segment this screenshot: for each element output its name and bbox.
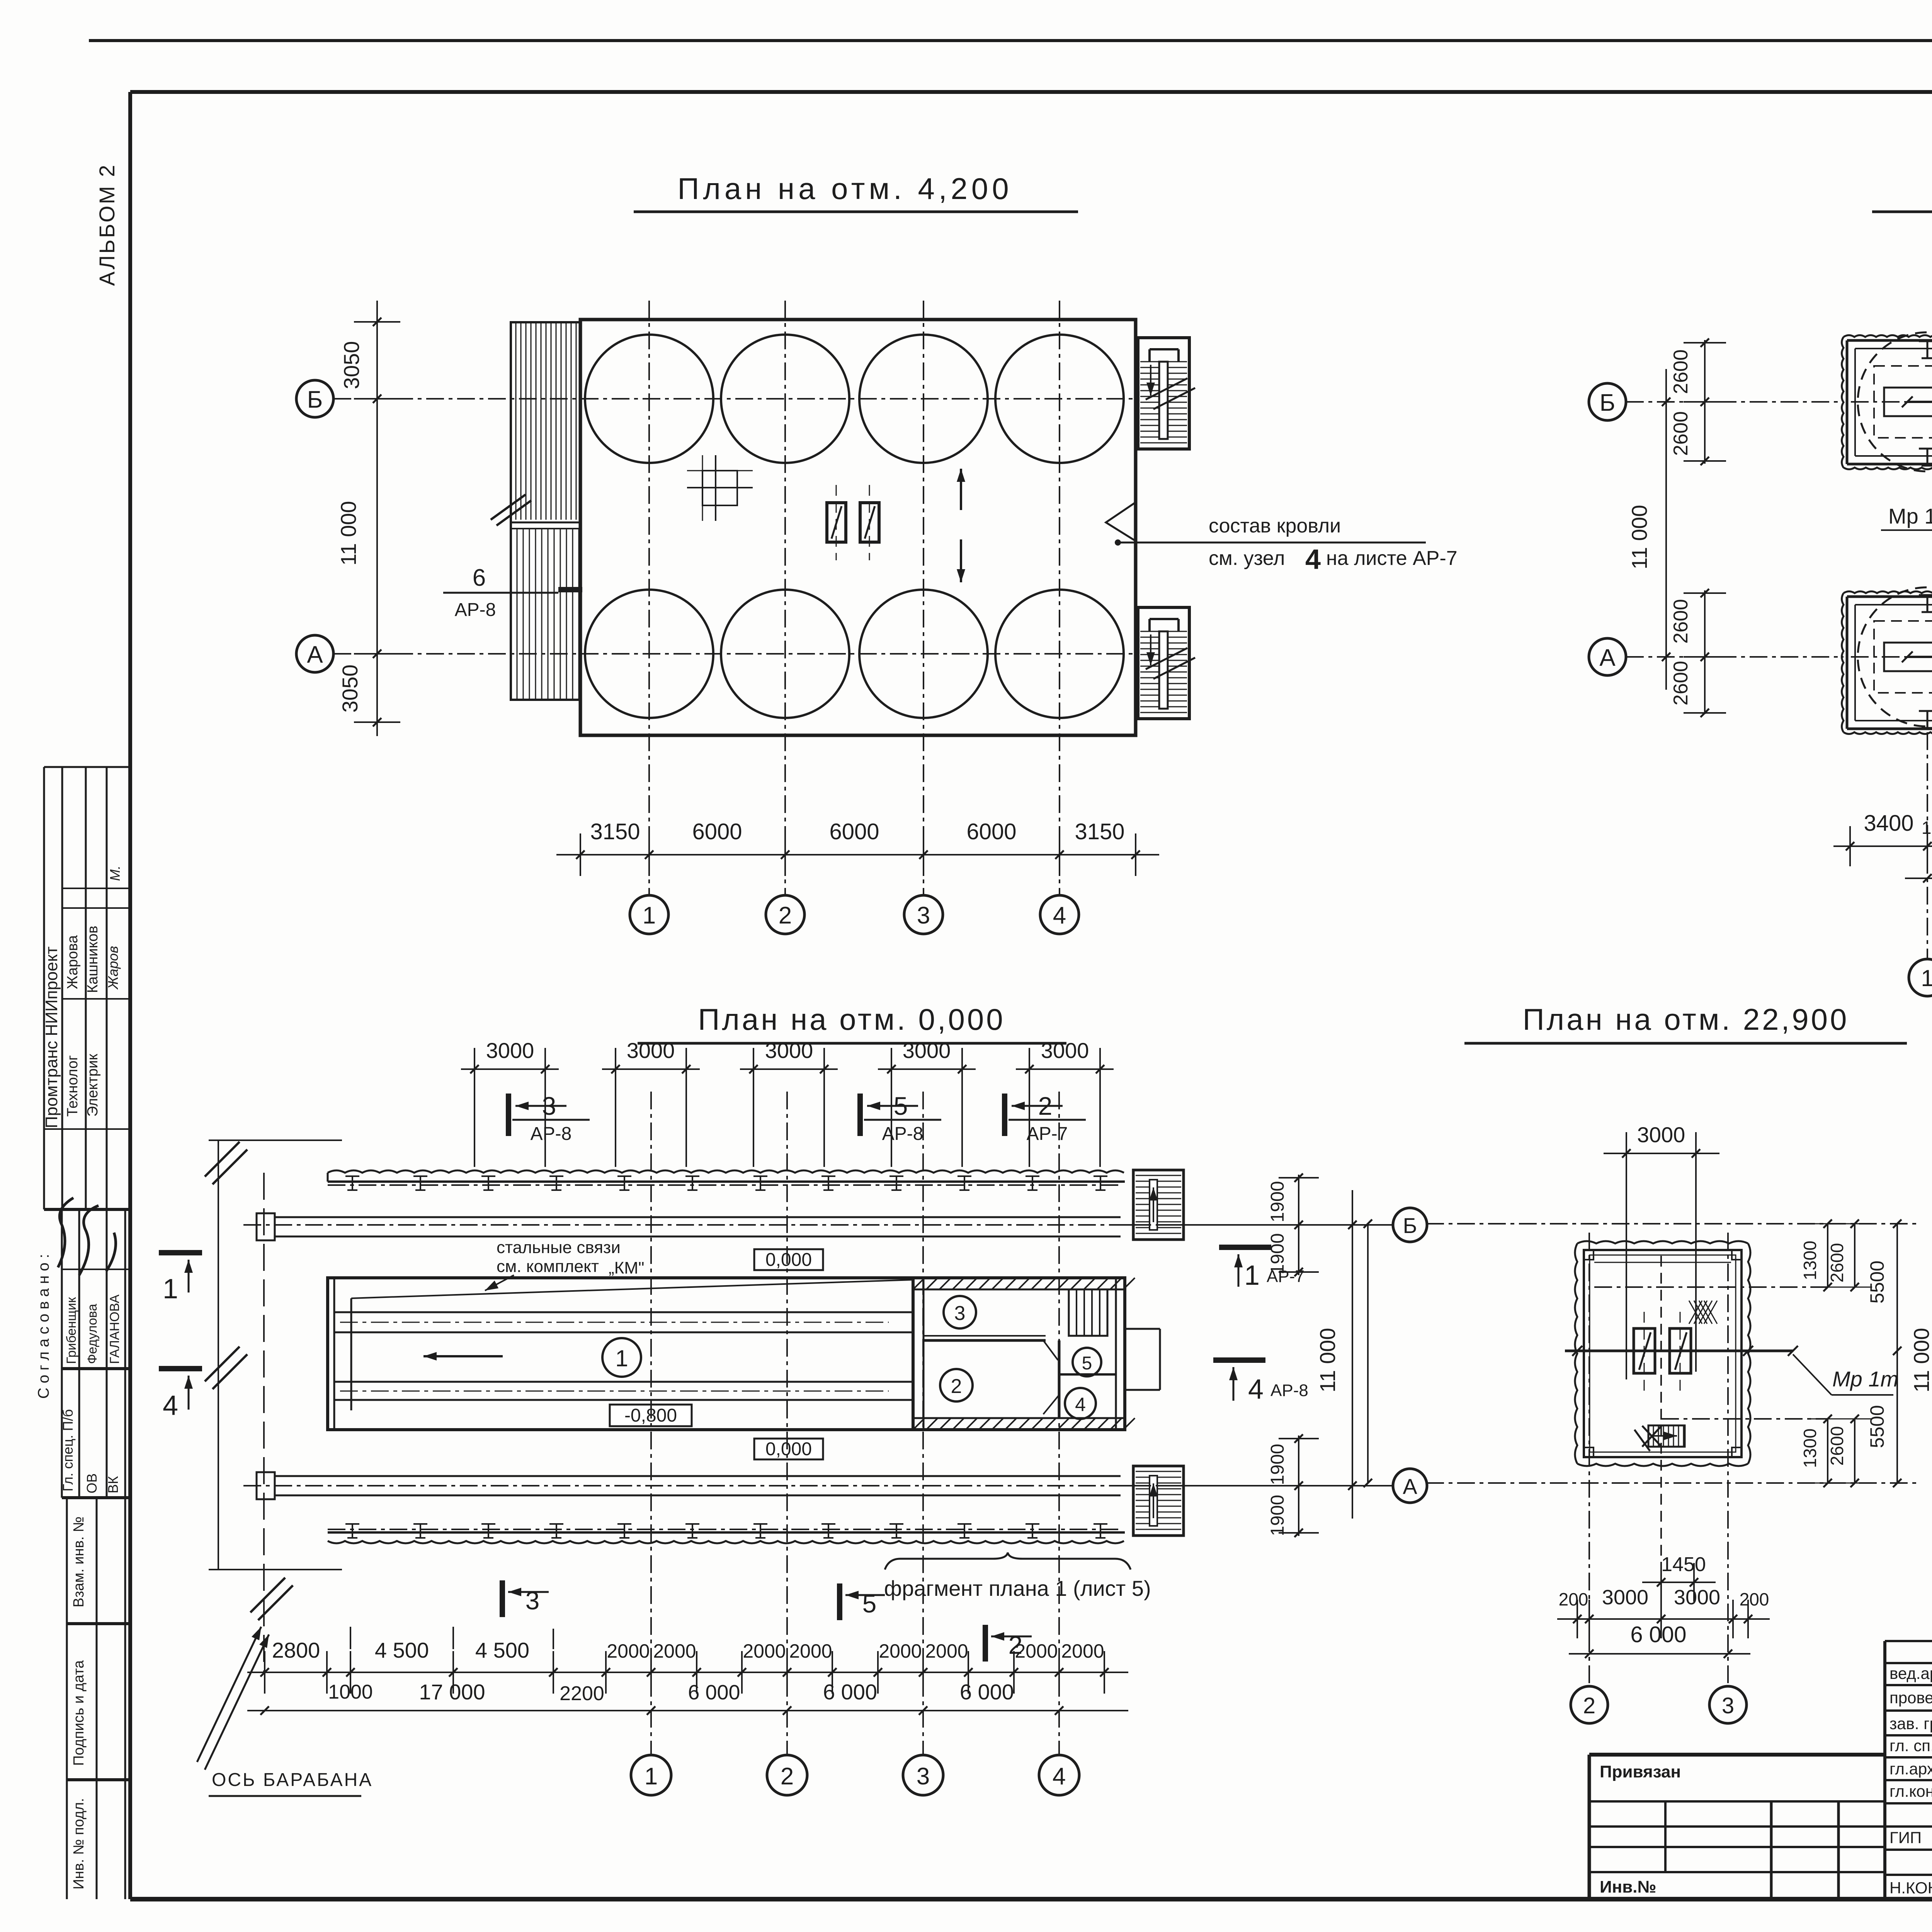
svg-text:3: 3 <box>954 1302 966 1325</box>
svg-text:200: 200 <box>1740 1589 1769 1609</box>
svg-text:5500: 5500 <box>1866 1405 1888 1448</box>
svg-text:200: 200 <box>1559 1589 1588 1609</box>
svg-text:3: 3 <box>917 902 930 929</box>
svg-text:3000: 3000 <box>1602 1586 1648 1609</box>
svg-text:Инв.№: Инв.№ <box>1600 1878 1656 1896</box>
svg-text:1300: 1300 <box>1800 1241 1820 1280</box>
svg-text:М.: М. <box>107 866 123 881</box>
svg-text:АР-8: АР-8 <box>455 600 496 620</box>
svg-text:План на отм. 15,000: План на отм. 15,000 <box>1930 172 1932 206</box>
svg-text:5: 5 <box>894 1092 908 1120</box>
svg-text:3000: 3000 <box>765 1038 813 1063</box>
svg-text:Б: Б <box>1403 1213 1417 1238</box>
svg-text:1900: 1900 <box>1267 1495 1288 1536</box>
svg-text:Б: Б <box>307 386 323 413</box>
svg-text:2: 2 <box>1009 1631 1023 1659</box>
svg-text:1900: 1900 <box>1267 1444 1288 1485</box>
svg-text:0,000: 0,000 <box>765 1439 812 1459</box>
svg-text:3000: 3000 <box>627 1038 675 1063</box>
svg-text:6 000: 6 000 <box>1630 1622 1686 1647</box>
svg-text:гл. сп. кон.: гл. сп. кон. <box>1889 1736 1932 1755</box>
svg-text:3: 3 <box>917 1763 930 1790</box>
svg-text:Б: Б <box>1600 389 1616 416</box>
svg-text:3: 3 <box>542 1092 556 1120</box>
svg-text:2: 2 <box>951 1375 962 1398</box>
svg-text:Гл. спец. П/б: Гл. спец. П/б <box>60 1409 76 1492</box>
svg-text:0,000: 0,000 <box>765 1250 812 1270</box>
svg-text:1000: 1000 <box>328 1681 373 1703</box>
svg-text:2: 2 <box>779 902 792 929</box>
svg-text:6000: 6000 <box>966 819 1016 844</box>
svg-text:состав кровли: состав кровли <box>1209 515 1341 537</box>
svg-text:2000: 2000 <box>925 1640 968 1662</box>
svg-text:11 000: 11 000 <box>1627 505 1651 569</box>
svg-text:4: 4 <box>1305 544 1321 575</box>
svg-text:17 000: 17 000 <box>419 1680 485 1704</box>
svg-text:2000: 2000 <box>607 1640 650 1662</box>
svg-text:Технолог: Технолог <box>65 1055 81 1117</box>
svg-text:2000: 2000 <box>789 1640 832 1662</box>
svg-text:3000: 3000 <box>903 1038 951 1063</box>
svg-text:2000: 2000 <box>1061 1640 1104 1662</box>
svg-text:1: 1 <box>1244 1260 1260 1291</box>
svg-text:6 000: 6 000 <box>688 1681 740 1704</box>
svg-text:3050: 3050 <box>338 665 362 713</box>
svg-text:Промтранс НИИпроект: Промтранс НИИпроект <box>42 946 61 1128</box>
svg-text:1: 1 <box>163 1274 178 1304</box>
svg-text:6000: 6000 <box>829 819 879 844</box>
svg-text:План на отм. 0,000: План на отм. 0,000 <box>698 1002 1005 1036</box>
svg-text:11 000: 11 000 <box>1315 1328 1340 1392</box>
svg-text:Кашников: Кашников <box>85 926 101 993</box>
svg-text:стальные связи: стальные связи <box>497 1238 621 1257</box>
svg-text:1450: 1450 <box>1661 1553 1706 1576</box>
svg-text:см. комплект: см. комплект <box>497 1257 599 1276</box>
svg-text:6 000: 6 000 <box>823 1680 877 1704</box>
svg-text:4 500: 4 500 <box>475 1638 529 1662</box>
svg-text:3000: 3000 <box>1041 1038 1089 1063</box>
svg-text:4 500: 4 500 <box>375 1638 429 1662</box>
svg-text:фрагмент плана 1 (лист 5): фрагмент плана 1 (лист 5) <box>884 1576 1151 1600</box>
svg-text:ОСЬ БАРАБАНА: ОСЬ БАРАБАНА <box>212 1770 373 1790</box>
svg-text:3: 3 <box>1722 1693 1734 1718</box>
svg-text:зав. груп.: зав. груп. <box>1889 1714 1932 1733</box>
svg-text:Мр 1т: Мр 1т <box>1888 504 1932 528</box>
svg-text:А: А <box>307 641 323 668</box>
svg-text:1300: 1300 <box>1800 1429 1820 1468</box>
svg-text:1: 1 <box>615 1345 628 1371</box>
svg-text:1: 1 <box>1921 965 1932 991</box>
svg-text:2: 2 <box>1583 1693 1595 1718</box>
svg-text:1: 1 <box>645 1763 658 1790</box>
svg-text:5: 5 <box>1082 1353 1092 1374</box>
svg-text:2: 2 <box>781 1763 794 1790</box>
svg-text:гл.арх.отд: гл.арх.отд <box>1889 1760 1932 1778</box>
svg-text:5500: 5500 <box>1866 1260 1888 1303</box>
svg-text:3150: 3150 <box>1075 819 1124 844</box>
svg-text:4: 4 <box>1053 1763 1066 1790</box>
svg-text:ГИП: ГИП <box>1889 1828 1922 1847</box>
svg-text:11 000: 11 000 <box>336 501 361 565</box>
svg-text:Инв. № подл.: Инв. № подл. <box>71 1798 87 1889</box>
svg-text:4: 4 <box>1053 902 1066 929</box>
svg-text:2600: 2600 <box>1670 349 1692 394</box>
svg-text:1: 1 <box>643 902 656 929</box>
svg-text:6000: 6000 <box>692 819 742 844</box>
svg-text:2600: 2600 <box>1827 1243 1847 1282</box>
svg-text:АР-7: АР-7 <box>1027 1124 1068 1144</box>
svg-text:11 000: 11 000 <box>1909 1328 1932 1392</box>
svg-text:1900: 1900 <box>1267 1181 1288 1223</box>
svg-text:проверил: проверил <box>1889 1689 1932 1707</box>
svg-text:ОВ: ОВ <box>84 1473 100 1493</box>
svg-text:Привязан: Привязан <box>1600 1762 1681 1781</box>
svg-text:5: 5 <box>862 1589 877 1618</box>
svg-text:3000: 3000 <box>1674 1586 1720 1609</box>
svg-text:План на отм. 22,900: План на отм. 22,900 <box>1523 1002 1849 1036</box>
svg-text:4: 4 <box>163 1390 178 1421</box>
svg-text:2200: 2200 <box>560 1682 604 1705</box>
svg-text:2600: 2600 <box>1670 411 1692 456</box>
svg-text:3: 3 <box>526 1586 540 1615</box>
svg-text:2600: 2600 <box>1670 661 1692 706</box>
svg-text:см. узел: см. узел <box>1209 547 1285 570</box>
svg-text:6: 6 <box>473 565 486 591</box>
svg-text:4: 4 <box>1075 1394 1086 1415</box>
svg-text:2000: 2000 <box>879 1640 922 1662</box>
svg-text:ВК: ВК <box>105 1476 121 1493</box>
svg-text:Взам. инв. №: Взам. инв. № <box>71 1517 87 1607</box>
svg-text:А: А <box>1403 1474 1417 1498</box>
svg-text:4: 4 <box>1248 1374 1264 1405</box>
svg-text:АР-7: АР-7 <box>1267 1267 1304 1286</box>
svg-text:на листе АР-7: на листе АР-7 <box>1326 547 1458 570</box>
svg-text:3400: 3400 <box>1864 811 1913 836</box>
svg-text:ГАЛАНОВА: ГАЛАНОВА <box>107 1294 122 1364</box>
svg-text:Подпись и дата: Подпись и дата <box>71 1660 87 1766</box>
svg-text:2600: 2600 <box>1827 1426 1847 1466</box>
svg-text:АЛЬБОМ 2: АЛЬБОМ 2 <box>95 163 119 286</box>
svg-text:АР-8: АР-8 <box>882 1124 923 1144</box>
svg-text:Грибенщик: Грибенщик <box>64 1297 79 1364</box>
svg-text:гл.кон.отд: гл.кон.отд <box>1889 1782 1932 1800</box>
svg-text:1200: 1200 <box>1922 818 1932 838</box>
svg-text:2800: 2800 <box>272 1638 320 1662</box>
svg-text:„КМ": „КМ" <box>609 1259 645 1277</box>
svg-text:2: 2 <box>1038 1092 1053 1120</box>
svg-text:Мр 1т: Мр 1т <box>1832 1367 1898 1391</box>
svg-text:3050: 3050 <box>339 341 364 389</box>
svg-text:2600: 2600 <box>1670 599 1692 644</box>
svg-text:3000: 3000 <box>1637 1122 1685 1147</box>
svg-text:Жаров: Жаров <box>105 946 121 990</box>
svg-text:6 000: 6 000 <box>960 1680 1014 1704</box>
svg-text:АР-8: АР-8 <box>531 1124 572 1144</box>
svg-text:3150: 3150 <box>590 819 640 844</box>
svg-text:2000: 2000 <box>653 1640 696 1662</box>
svg-text:вед.арх.: вед.арх. <box>1889 1664 1932 1682</box>
svg-text:Электрик: Электрик <box>85 1054 101 1117</box>
svg-text:А: А <box>1599 645 1616 671</box>
svg-text:Федулова: Федулова <box>85 1304 100 1364</box>
svg-text:3000: 3000 <box>486 1038 534 1063</box>
svg-text:Н.КОНТРОЛ: Н.КОНТРОЛ <box>1889 1879 1932 1897</box>
svg-text:Жарова: Жарова <box>65 935 81 989</box>
svg-text:2000: 2000 <box>743 1640 786 1662</box>
svg-text:План на отм. 4,200: План на отм. 4,200 <box>677 172 1012 206</box>
svg-text:АР-8: АР-8 <box>1270 1381 1308 1400</box>
svg-text:С о г л а с о в а н о :: С о г л а с о в а н о : <box>35 1254 52 1399</box>
